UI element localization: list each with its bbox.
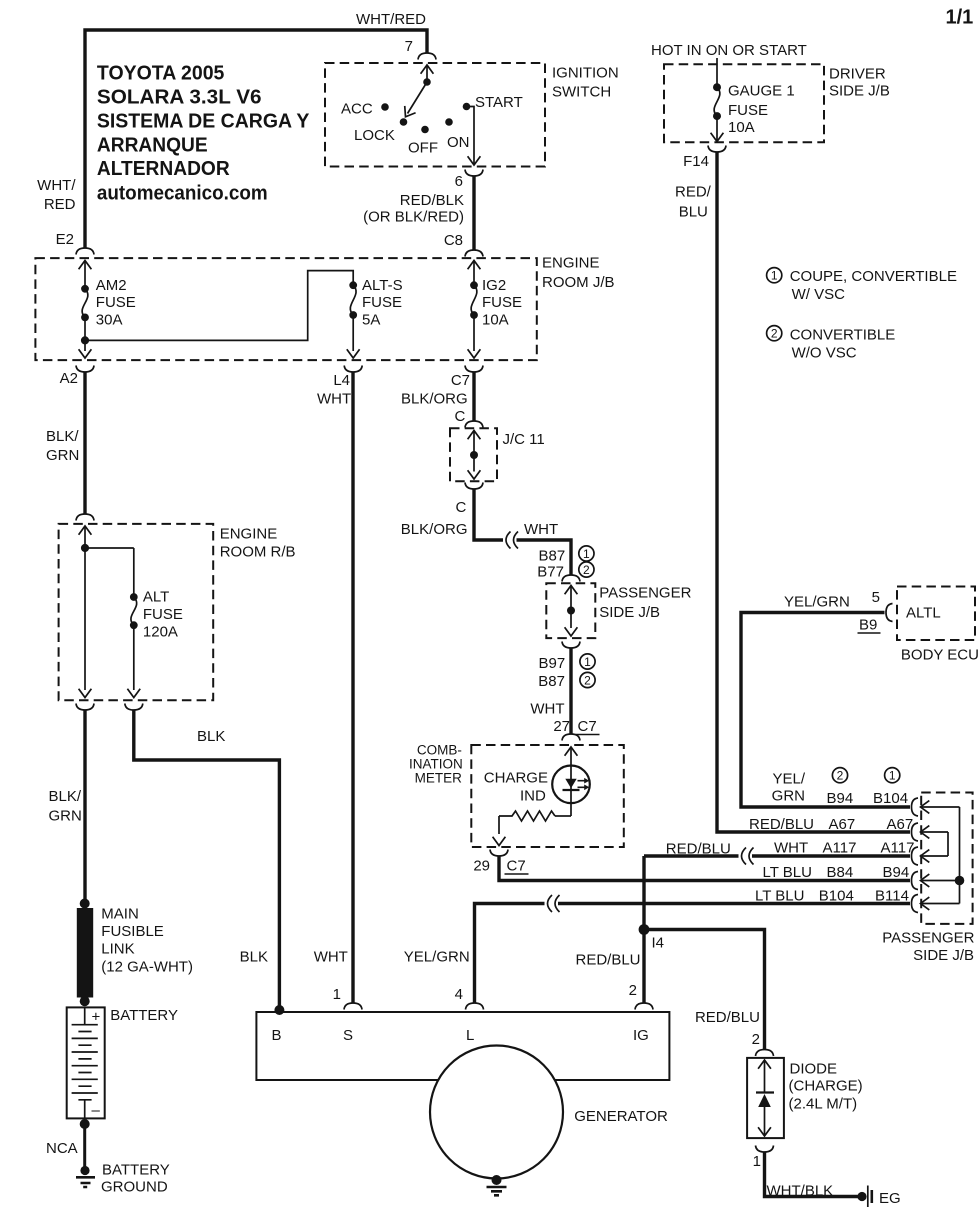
svg-text:J/C 11: J/C 11: [503, 431, 545, 448]
svg-text:FUSE: FUSE: [362, 294, 402, 311]
svg-text:RED/BLU: RED/BLU: [666, 841, 731, 858]
wire YEL/GRN generator L up to row5: [475, 904, 545, 1004]
svg-text:SIDE J/B: SIDE J/B: [829, 83, 890, 100]
ALT-S fuse top dot: [349, 281, 357, 289]
node I4 dot: [639, 924, 650, 935]
contact START dot: [463, 103, 471, 111]
generator box: [256, 1012, 669, 1080]
IG2 fuse bottom dot: [470, 311, 478, 319]
svg-text:BLU: BLU: [679, 204, 708, 221]
svg-text:RED/BLK: RED/BLK: [400, 192, 464, 209]
connector row5 cup: [912, 895, 919, 913]
ignition input arrow: [421, 65, 434, 74]
connector S cup: [344, 1003, 362, 1010]
svg-text:C8: C8: [444, 232, 463, 249]
svg-text:ENGINE: ENGINE: [220, 526, 278, 543]
R/B left through wire: [84, 548, 86, 690]
engine room J/B box: [35, 258, 536, 360]
svg-text:B94: B94: [883, 864, 910, 881]
generator circle: [430, 1046, 563, 1179]
connector R/B right output cup: [125, 704, 143, 711]
svg-text:RED/BLU: RED/BLU: [695, 1009, 760, 1026]
svg-text:DIODE: DIODE: [790, 1061, 838, 1078]
svg-text:FUSE: FUSE: [482, 294, 522, 311]
wire BLK/ORG C7 to J/C 11: [472, 372, 475, 421]
diode down arrow: [758, 1127, 771, 1136]
svg-text:ROOM R/B: ROOM R/B: [220, 544, 296, 561]
svg-text:S: S: [343, 1027, 353, 1044]
battery ground dot: [80, 1166, 89, 1175]
J/C 11 dot: [470, 451, 478, 459]
svg-text:ALT: ALT: [143, 589, 169, 606]
ALTL box: [897, 587, 975, 641]
fuse ALT 120A: [131, 597, 137, 625]
svg-text:automecanico.com: automecanico.com: [97, 183, 268, 205]
svg-text:DRIVER: DRIVER: [829, 66, 886, 83]
generator ground symbol: [487, 1187, 507, 1195]
svg-text:FUSIBLE: FUSIBLE: [101, 923, 164, 940]
lamp internal wire: [570, 766, 572, 816]
meter input arrow: [565, 747, 578, 756]
AM2 fuse bottom dot: [81, 314, 89, 322]
svg-text:WHT: WHT: [314, 949, 348, 966]
row2 arrow: [921, 826, 930, 839]
svg-text:WHT/BLK: WHT/BLK: [767, 1183, 834, 1200]
svg-text:TOYOTA 2005: TOYOTA 2005: [97, 63, 224, 85]
EG ground symbol: [867, 1186, 869, 1208]
svg-text:RED: RED: [44, 196, 76, 213]
svg-text:ENGINE: ENGINE: [542, 255, 600, 272]
svg-text:SIDE J/B: SIDE J/B: [599, 604, 660, 621]
svg-text:A117: A117: [881, 840, 915, 857]
svg-text:10A: 10A: [482, 312, 509, 329]
svg-text:29: 29: [473, 858, 490, 875]
svg-text:WHT/RED: WHT/RED: [356, 11, 426, 28]
resistor to lamp wire: [555, 815, 571, 817]
AM2 junction dot: [81, 336, 89, 344]
passenger J/B down arrow: [565, 627, 578, 636]
svg-text:F14: F14: [683, 153, 709, 170]
wire row4 from meter: [499, 856, 910, 881]
fusible link top dot: [80, 899, 90, 909]
svg-text:(12 GA-WHT): (12 GA-WHT): [101, 959, 193, 976]
circled 2 B77: [579, 562, 594, 577]
svg-text:B: B: [272, 1027, 282, 1044]
connector 6 cup: [465, 170, 483, 177]
svg-text:IG2: IG2: [482, 277, 506, 294]
svg-text:B77: B77: [537, 564, 564, 581]
svg-text:(2.4L M/T): (2.4L M/T): [789, 1096, 858, 1113]
svg-text:ROOM J/B: ROOM J/B: [542, 274, 615, 291]
svg-text:1: 1: [583, 547, 590, 561]
wire BLK R/B to generator B: [134, 710, 280, 1010]
svg-text:IG: IG: [633, 1027, 649, 1044]
svg-text:CHARGE: CHARGE: [484, 770, 548, 787]
svg-text:ALTERNADOR: ALTERNADOR: [97, 158, 230, 180]
svg-text:2: 2: [752, 1031, 760, 1048]
svg-text:5: 5: [872, 589, 880, 606]
combination meter box: [471, 745, 624, 847]
wire WHT to combination meter: [569, 648, 572, 734]
svg-text:2: 2: [583, 563, 590, 577]
svg-text:C: C: [456, 499, 467, 516]
LED triangle: [565, 779, 576, 789]
ALT fuse top dot: [130, 593, 138, 601]
svg-text:EG: EG: [879, 1190, 901, 1207]
gauge fuse bottom dot: [713, 112, 721, 120]
svg-text:BLK/: BLK/: [46, 428, 79, 445]
svg-text:2: 2: [771, 327, 778, 341]
fuse GAUGE 1 10A: [714, 87, 720, 116]
connector 27 C7 cup: [562, 734, 580, 741]
legend circled 2: [767, 326, 782, 341]
diode box: [747, 1058, 784, 1138]
R/B input wire: [84, 526, 86, 548]
svg-text:L: L: [466, 1027, 474, 1044]
svg-text:CONVERTIBLE: CONVERTIBLE: [790, 327, 896, 344]
svg-text:1: 1: [753, 1153, 761, 1170]
charge indicator lamp circle: [552, 766, 590, 804]
ignition output arrow: [468, 156, 481, 165]
svg-text:ON: ON: [447, 134, 470, 151]
AM2 fuse wire top: [84, 261, 86, 289]
driver J/B output arrow: [711, 133, 724, 142]
svg-text:B87: B87: [538, 548, 565, 565]
R/B input arrow: [79, 526, 92, 535]
meter output arrow: [493, 837, 506, 846]
circled 1 B97: [580, 654, 595, 669]
svg-text:1: 1: [584, 655, 591, 669]
battery positive dot: [80, 996, 90, 1006]
svg-text:A67: A67: [829, 816, 856, 833]
connector A2 cup: [76, 366, 94, 373]
svg-text:IGNITION: IGNITION: [552, 65, 619, 82]
svg-text:E2: E2: [56, 231, 74, 248]
ALT-S fuse bottom dot: [349, 311, 357, 319]
ignition lever arrowhead: [400, 106, 416, 120]
svg-text:B97: B97: [538, 655, 565, 672]
gauge fuse top dot: [713, 83, 721, 91]
svg-text:A2: A2: [60, 370, 78, 387]
engine room R/B box: [59, 524, 214, 700]
J/C 11 internal wire: [473, 431, 475, 472]
svg-text:10A: 10A: [728, 119, 755, 136]
battery minus stub: [84, 1100, 86, 1119]
svg-text:FUSE: FUSE: [143, 606, 183, 623]
svg-text:2: 2: [837, 769, 844, 783]
LED emission arrows: [578, 781, 586, 788]
connector IG cup: [635, 1003, 653, 1010]
battery ground symbol: [76, 1177, 95, 1187]
connector C8 cup: [465, 250, 483, 257]
row4 arrow: [921, 874, 930, 887]
svg-text:METER: METER: [415, 771, 463, 786]
svg-text:GRN: GRN: [49, 808, 82, 825]
svg-text:BLK/ORG: BLK/ORG: [401, 521, 468, 538]
svg-text:(CHARGE): (CHARGE): [789, 1078, 863, 1095]
wire I4 to diode branch: [644, 930, 765, 1050]
LED cathode bar: [563, 789, 580, 791]
wire WHT L4 to generator S: [351, 372, 354, 1003]
connector engine room R/B input cup: [76, 514, 94, 521]
fuse AM2 30A: [82, 289, 88, 318]
svg-text:SWITCH: SWITCH: [552, 84, 611, 101]
junction connector J/C 11 box: [450, 428, 497, 481]
wire BLK/GRN to fusible link: [83, 710, 86, 904]
svg-text:+: +: [92, 1009, 101, 1026]
svg-text:120A: 120A: [143, 624, 178, 641]
svg-text:FUSE: FUSE: [96, 294, 136, 311]
meter input wire: [570, 747, 572, 766]
svg-text:A117: A117: [823, 840, 857, 857]
right J/B internal tie rows 2-3: [947, 832, 949, 856]
wire RED/BLU row3 left: [644, 854, 739, 857]
svg-text:6: 6: [455, 173, 463, 190]
svg-text:W/O VSC: W/O VSC: [792, 345, 857, 362]
svg-text:1: 1: [889, 769, 896, 783]
passenger side J/B (right) box: [921, 793, 972, 924]
right J/B junction dot: [955, 876, 965, 886]
svg-text:PASSENGER: PASSENGER: [599, 585, 691, 602]
IG2 fuse top dot: [470, 281, 478, 289]
battery plates: [72, 1025, 98, 1100]
svg-text:BLK: BLK: [197, 728, 225, 745]
svg-text:WHT: WHT: [317, 391, 351, 408]
svg-text:I4: I4: [652, 935, 665, 952]
svg-text:4: 4: [455, 986, 463, 1003]
svg-text:AM2: AM2: [96, 277, 127, 294]
svg-text:BLK: BLK: [240, 949, 268, 966]
svg-text:NCA: NCA: [46, 1140, 78, 1157]
circled 2 B87 lower: [580, 672, 595, 687]
svg-text:LINK: LINK: [101, 941, 134, 958]
right J/B internal tie rows 1-4-5: [959, 807, 961, 904]
wire WHT/BLK diode to EG ground: [765, 1152, 859, 1197]
diode internal wire: [764, 1060, 766, 1136]
resistor output wire: [498, 816, 500, 834]
svg-text:HOT IN ON OR START: HOT IN ON OR START: [651, 42, 807, 59]
svg-text:BATTERY: BATTERY: [102, 1162, 170, 1179]
wire LT BLU row5 right: [558, 902, 910, 905]
contact ACC dot: [381, 103, 389, 111]
svg-text:IND: IND: [520, 788, 546, 805]
connector passenger J/B output cup: [562, 642, 580, 649]
C7 output arrow: [468, 349, 481, 358]
svg-text:C7: C7: [507, 858, 526, 875]
generator ground dot: [492, 1175, 502, 1185]
svg-text:SISTEMA DE CARGA Y: SISTEMA DE CARGA Y: [97, 111, 310, 133]
wire 6 to C8: [472, 176, 475, 250]
IG2 fuse wire bottom: [473, 315, 475, 351]
row3 arrow: [921, 850, 930, 863]
wire WHT row3 right: [752, 854, 910, 857]
svg-text:B84: B84: [827, 864, 854, 881]
connector 7 cup: [418, 53, 436, 60]
IG2 input arrow: [468, 261, 481, 270]
wire WHT to passenger J/B: [517, 540, 572, 575]
svg-text:ACC: ACC: [341, 101, 373, 118]
svg-text:GRN: GRN: [772, 788, 805, 805]
J/C 11 down arrow: [468, 470, 481, 479]
inline connector row5 splice: [548, 895, 560, 912]
legend circled 1: [767, 268, 782, 283]
circled 1 B87: [579, 546, 594, 561]
svg-text:B104: B104: [873, 790, 908, 807]
svg-text:WHT: WHT: [774, 840, 808, 857]
connector L cup: [466, 1003, 484, 1010]
ignition switch box: [325, 63, 545, 167]
svg-text:RED/BLU: RED/BLU: [576, 952, 641, 969]
svg-text:BLK/: BLK/: [49, 788, 82, 805]
connector R/B left output cup: [76, 704, 94, 711]
svg-text:LT BLU: LT BLU: [763, 864, 812, 881]
svg-text:B9: B9: [859, 617, 877, 634]
svg-text:C: C: [455, 408, 466, 425]
svg-text:WHT: WHT: [530, 701, 564, 718]
svg-text:OFF: OFF: [408, 140, 438, 157]
svg-text:MAIN: MAIN: [101, 906, 139, 923]
driver side J/B box: [664, 64, 824, 142]
diode cathode bar: [756, 1091, 774, 1093]
svg-text:ARRANQUE: ARRANQUE: [97, 135, 208, 157]
wire RED/BLU row3 vertical to I4: [642, 856, 645, 930]
svg-text:2: 2: [629, 982, 637, 999]
ALT-S fuse wire bottom: [352, 315, 354, 351]
connector passenger J/B input cup: [562, 575, 580, 582]
AM2 input arrow: [79, 261, 92, 270]
wire NCA battery to ground: [83, 1124, 86, 1170]
svg-text:BLK/ORG: BLK/ORG: [401, 391, 468, 408]
svg-text:GRN: GRN: [46, 447, 79, 464]
svg-text:1: 1: [771, 269, 778, 283]
ALT fuse bottom dot: [130, 621, 138, 629]
passenger J/B internal wire: [570, 586, 572, 629]
connector C cup upper: [465, 421, 483, 428]
connector C cup lower: [465, 483, 483, 490]
diode up arrow: [758, 1060, 771, 1069]
generator B terminal dot: [274, 1005, 284, 1015]
svg-text:YEL/: YEL/: [772, 771, 805, 788]
svg-text:30A: 30A: [96, 312, 123, 329]
svg-text:GAUGE 1: GAUGE 1: [728, 83, 795, 100]
circled 1 row1: [885, 768, 900, 783]
ALT fuse output wire: [133, 625, 135, 690]
connector diode top cup: [756, 1050, 774, 1057]
svg-text:ALTL: ALTL: [906, 605, 941, 622]
connector diode bottom cup: [756, 1146, 774, 1153]
circled 2 row1: [832, 768, 847, 783]
AM2 fuse top dot: [81, 285, 89, 293]
passenger side J/B (middle) box: [546, 583, 595, 638]
fuse ALT-S 5A: [350, 285, 356, 315]
connector B9 cup: [886, 604, 893, 622]
AM2 fuse wire bottom: [84, 317, 86, 351]
svg-text:B114: B114: [875, 888, 909, 905]
connector row4 cup: [912, 872, 919, 890]
R/B branch wire: [85, 547, 134, 549]
diode triangle: [758, 1094, 771, 1107]
svg-text:27: 27: [553, 718, 570, 735]
svg-text:W/ VSC: W/ VSC: [792, 286, 846, 303]
jog wire AM2 to ALT-S: [85, 271, 353, 341]
R/B right output arrow: [127, 689, 140, 698]
A2 output arrow: [79, 349, 92, 358]
connector row1 cup: [912, 798, 919, 816]
svg-text:2: 2: [584, 673, 591, 687]
wire BLK/ORG down and right: [474, 489, 503, 540]
svg-text:C7: C7: [451, 372, 470, 389]
svg-text:L4: L4: [333, 372, 350, 389]
svg-text:WHT/: WHT/: [37, 177, 76, 194]
svg-text:LT BLU: LT BLU: [755, 888, 804, 905]
passenger J/B dot: [567, 607, 575, 615]
svg-text:RED/: RED/: [675, 184, 712, 201]
connector F14 cup: [708, 146, 726, 153]
inline connector row3 splice: [742, 848, 754, 865]
svg-text:INATION: INATION: [409, 757, 463, 772]
ALT fuse feed wire: [133, 548, 135, 597]
ignition lever wire: [426, 65, 428, 82]
START branch wire: [467, 107, 475, 166]
ignition pivot dot: [423, 78, 431, 86]
inline connector WHT splice: [506, 532, 518, 549]
connector C7 cup: [465, 366, 483, 373]
wire WHT/RED top horizontal + left vertical to E2: [85, 30, 427, 248]
svg-text:COMB-: COMB-: [417, 743, 462, 758]
MAIN FUSIBLE LINK bar: [77, 908, 93, 998]
svg-text:ALT-S: ALT-S: [362, 277, 403, 294]
svg-text:GENERATOR: GENERATOR: [574, 1108, 668, 1125]
connector 29 C7 cup: [490, 850, 508, 857]
wire YEL/GRN to ALTL and down to B94 row: [741, 613, 910, 808]
svg-text:7: 7: [405, 38, 413, 55]
J/C 11 up arrow: [468, 431, 481, 440]
svg-text:YEL/GRN: YEL/GRN: [784, 594, 850, 611]
svg-text:SOLARA 3.3L V6: SOLARA 3.3L V6: [97, 87, 262, 109]
R/B junction dot: [81, 544, 89, 552]
svg-text:LOCK: LOCK: [354, 127, 395, 144]
contact ON dot: [445, 118, 453, 126]
svg-text:–: –: [92, 1102, 101, 1119]
svg-text:RED/BLU: RED/BLU: [749, 816, 814, 833]
svg-text:BATTERY: BATTERY: [110, 1007, 178, 1024]
resistor zigzag: [499, 811, 555, 821]
svg-text:B104: B104: [819, 888, 854, 905]
contact OFF dot: [421, 126, 429, 134]
svg-text:C7: C7: [578, 718, 597, 735]
svg-text:1: 1: [333, 986, 341, 1003]
svg-text:PASSENGER: PASSENGER: [882, 930, 974, 947]
ignition lever: [408, 82, 428, 114]
svg-text:1/1: 1/1: [946, 7, 974, 29]
svg-text:START: START: [475, 94, 523, 111]
passenger J/B up arrow: [565, 586, 578, 595]
IG2 fuse wire top: [473, 261, 475, 286]
connector row3 cup: [912, 847, 919, 865]
connector L4 cup: [344, 366, 362, 373]
svg-text:5A: 5A: [362, 312, 380, 329]
svg-text:GROUND: GROUND: [101, 1179, 168, 1196]
EG ground dot: [857, 1192, 866, 1201]
svg-text:FUSE: FUSE: [728, 102, 768, 119]
connector E2 cup: [76, 248, 94, 255]
battery plus terminal stub: [84, 1007, 86, 1024]
R/B left output arrow: [79, 689, 92, 698]
wire RED/BLU I4 to generator IG: [642, 930, 645, 1004]
L4 output arrow: [347, 349, 360, 358]
gauge fuse output wire: [716, 116, 718, 141]
contact LOCK dot: [400, 118, 408, 126]
